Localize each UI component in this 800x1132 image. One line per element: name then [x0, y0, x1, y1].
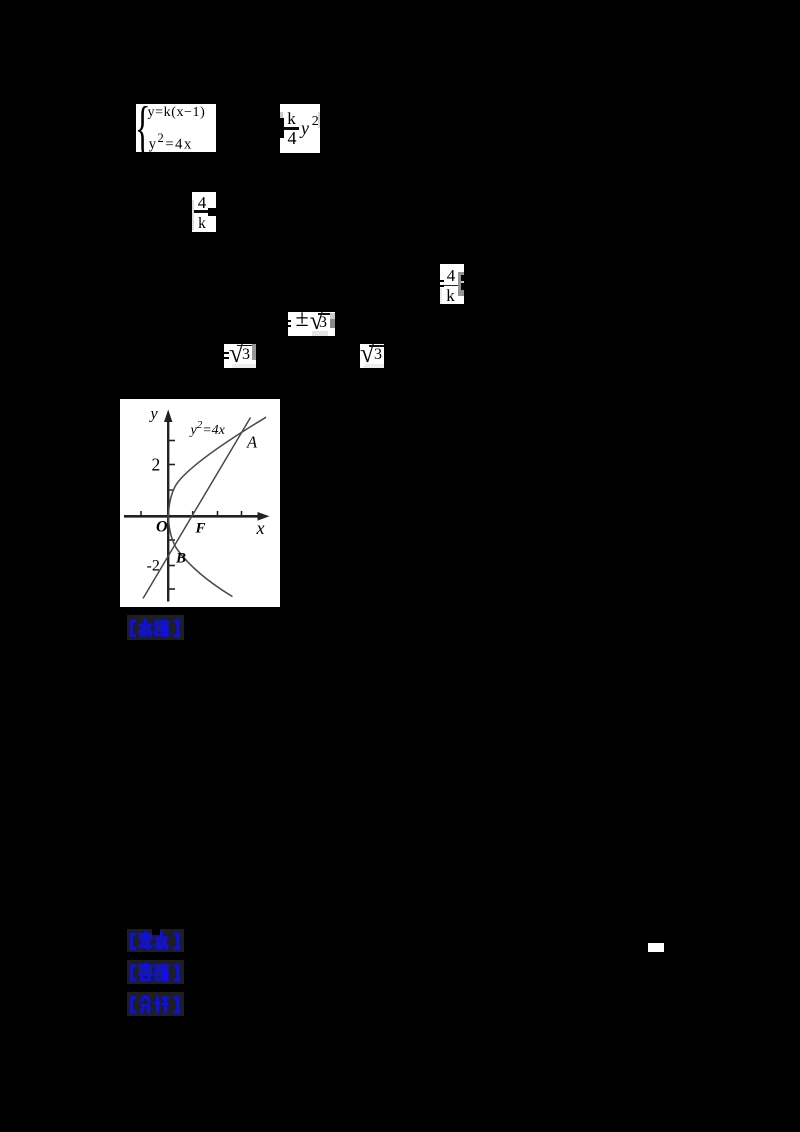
svg-text:B: B: [175, 551, 186, 567]
3: [374, 346, 382, 364]
left curly brace: [135, 92, 150, 163]
formula image: sqrt(3): [360, 344, 384, 368]
x-axis ticks: [140, 511, 142, 516]
svg-text:2: 2: [152, 455, 161, 475]
vinculum: [369, 345, 384, 347]
leftover glyph blob at left edge: [280, 118, 284, 138]
shared blur filter: [0, 0, 1, 1]
dark artifacts right edge: [458, 272, 464, 296]
gray sliver right edge: [318, 112, 320, 128]
3: [319, 314, 327, 332]
y-axis ticks: [168, 440, 175, 442]
plus-minus: [296, 306, 309, 333]
formula image: = sqrt(3): [224, 344, 256, 368]
figure: parabola y^2=4x with focal chord line: [120, 399, 280, 607]
x-axis arrowhead: [258, 512, 270, 521]
svg-text:-2: -2: [147, 558, 160, 575]
blue label 2 (zhuan ti): [127, 960, 184, 984]
small white dash at right: [648, 943, 664, 952]
formula image: 4/k: [192, 192, 216, 232]
svg-text:y: y: [149, 406, 159, 423]
black blob right of bar: [208, 208, 216, 216]
partial equals at left edge: [440, 280, 444, 283]
svg-text:A: A: [246, 433, 258, 452]
formula image: = +/- sqrt(3): [288, 312, 335, 336]
blue label 1 (kao dian): [127, 929, 184, 952]
chord line through F: [143, 418, 251, 599]
parabola upper branch: [168, 417, 266, 516]
3: [242, 346, 250, 364]
formula image: (k/4)y^2: [280, 104, 320, 153]
parabola lower branch: [168, 516, 232, 596]
nub at left edge: [192, 208, 194, 214]
x-axis: [124, 515, 260, 518]
vinculum: [318, 313, 331, 315]
fraction bar: [192, 210, 209, 212]
blue label 3 (fen xi): [127, 992, 184, 1016]
y^2: [301, 118, 309, 139]
blue caption under figure: [127, 615, 184, 640]
svg-text:O: O: [156, 519, 168, 536]
radical: [310, 306, 324, 336]
gray artifacts right: [330, 313, 335, 319]
formula image: = 4/k: [440, 264, 464, 304]
radical: [229, 338, 244, 369]
vinculum: [237, 345, 252, 347]
y-axis arrowhead: [164, 410, 172, 423]
radical: [360, 338, 375, 369]
equation line 1: y=k(x-1): [148, 105, 206, 121]
fraction k/4: [284, 112, 300, 125]
svg-text:y2=4x: y2=4x: [189, 419, 226, 438]
svg-text:F: F: [195, 521, 206, 537]
equation line 2: y^2=4x: [149, 131, 193, 154]
svg-text:x: x: [256, 518, 265, 538]
formula image: system of equations { y=k(x-1); y^2=4x }: [136, 104, 216, 152]
fraction bar: [444, 285, 459, 286]
y-axis: [167, 419, 169, 602]
